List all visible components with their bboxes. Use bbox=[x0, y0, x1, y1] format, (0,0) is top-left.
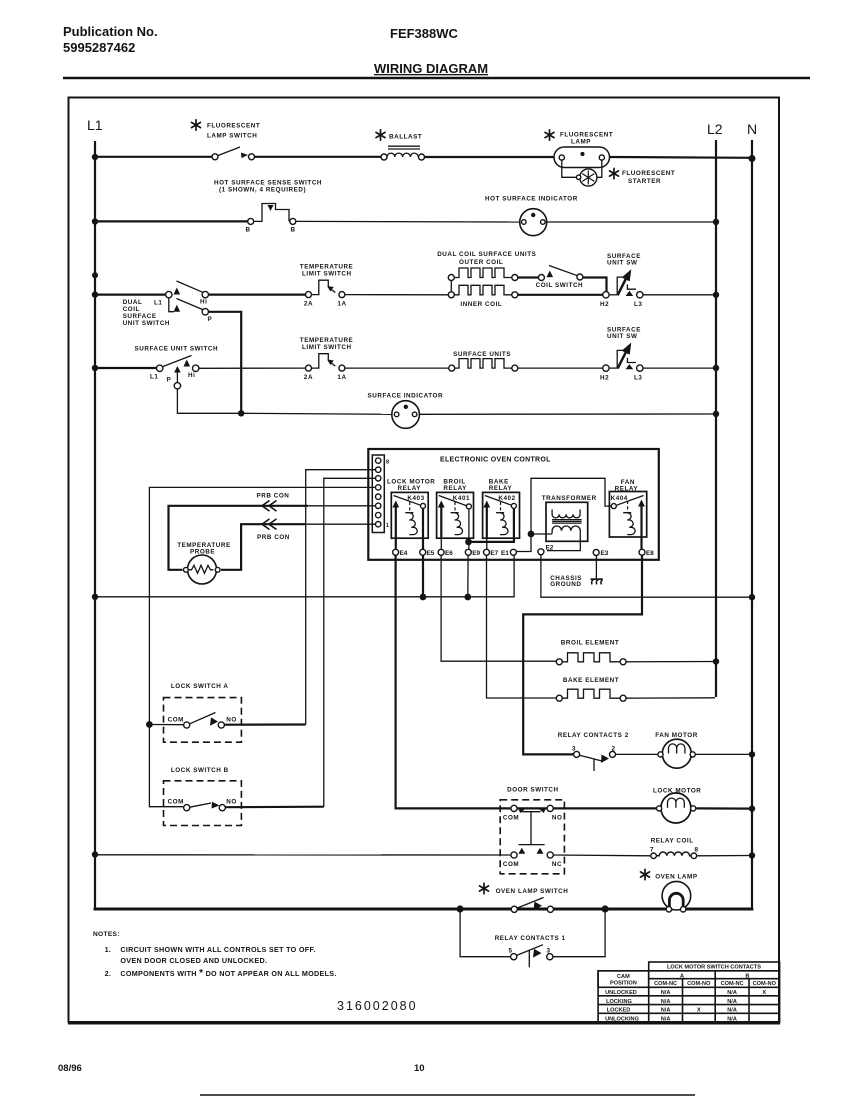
svg-text:5995287462: 5995287462 bbox=[63, 40, 135, 55]
junction L1 relay coil row bbox=[92, 851, 98, 857]
svg-text:1A: 1A bbox=[337, 374, 346, 381]
svg-text:E1: E1 bbox=[501, 550, 509, 557]
svg-text:LOCKING: LOCKING bbox=[606, 999, 632, 1005]
svg-text:SURFACE: SURFACE bbox=[123, 313, 157, 320]
svg-text:FEF388WC: FEF388WC bbox=[390, 26, 459, 41]
svg-text:1.: 1. bbox=[105, 945, 112, 954]
wire door switch NC to relay coil bbox=[553, 854, 650, 857]
svg-text:UNIT SW: UNIT SW bbox=[607, 260, 637, 267]
wire lamp to N bbox=[610, 156, 753, 159]
junction oven lamp row right branch bbox=[602, 905, 609, 912]
svg-text:FLUORESCENT: FLUORESCENT bbox=[560, 132, 613, 139]
wire L3 to L2 bbox=[643, 294, 716, 296]
header publication no bbox=[63, 24, 158, 55]
bake element bbox=[556, 677, 626, 701]
svg-text:3: 3 bbox=[547, 947, 551, 954]
relay terminal E6 bbox=[438, 538, 453, 557]
svg-text:X: X bbox=[762, 990, 766, 996]
junction L2 row2 bbox=[713, 219, 719, 225]
svg-text:N/A: N/A bbox=[661, 999, 671, 1005]
wire oven lamp row bbox=[95, 908, 752, 909]
svg-text:X: X bbox=[697, 1008, 701, 1014]
svg-text:OUTER COIL: OUTER COIL bbox=[459, 259, 503, 266]
svg-text:LAMP SWITCH: LAMP SWITCH bbox=[207, 133, 257, 140]
svg-text:E9: E9 bbox=[472, 550, 480, 557]
EOC connector strip bbox=[372, 455, 389, 533]
svg-text:8: 8 bbox=[386, 460, 389, 466]
PRB CON arrow upper bbox=[257, 493, 290, 512]
wire lock motor to N bbox=[696, 807, 752, 809]
lock switch A bbox=[153, 683, 242, 742]
junction L1 row1 bbox=[92, 154, 98, 160]
svg-text:2A: 2A bbox=[304, 301, 313, 308]
footer rule bbox=[200, 1094, 695, 1096]
wire door switch NO to lock motor bbox=[553, 807, 657, 809]
wire broil element to L2 bbox=[626, 661, 716, 663]
svg-text:CAM: CAM bbox=[617, 974, 630, 980]
wire L2 rail bbox=[715, 140, 717, 697]
wire row3 L1 to switch bbox=[95, 294, 166, 296]
fluorescent lamp switch bbox=[192, 120, 261, 160]
svg-text:E4: E4 bbox=[400, 550, 408, 557]
lock motor relay K403 bbox=[387, 479, 435, 539]
wire L1 net row to E1 bbox=[95, 555, 514, 597]
svg-text:N/A: N/A bbox=[727, 990, 737, 996]
svg-text:B: B bbox=[290, 227, 295, 234]
svg-text:TRANSFORMER: TRANSFORMER bbox=[542, 495, 597, 502]
junction L1 row3 bbox=[92, 291, 98, 297]
svg-text:1: 1 bbox=[386, 523, 389, 529]
junction transformer primary feed bbox=[528, 531, 535, 538]
svg-text:RELAY CONTACTS 1: RELAY CONTACTS 1 bbox=[495, 935, 566, 942]
junction indicator row bbox=[238, 410, 244, 416]
wire inner coil to H2 bbox=[518, 294, 603, 296]
svg-text:HOT SURFACE INDICATOR: HOT SURFACE INDICATOR bbox=[485, 196, 578, 203]
svg-text:N: N bbox=[747, 121, 757, 137]
svg-text:RELAY COIL: RELAY COIL bbox=[651, 837, 694, 844]
oven lamp bbox=[641, 869, 698, 912]
wire Hi to temp limit switch row4 bbox=[199, 367, 305, 369]
svg-text:SURFACE INDICATOR: SURFACE INDICATOR bbox=[368, 392, 444, 399]
svg-text:COM-NO: COM-NO bbox=[753, 981, 777, 987]
junction lock switch A common bbox=[146, 721, 153, 728]
surface unit SW row3 bbox=[600, 253, 643, 308]
svg-text:TEMPERATURE: TEMPERATURE bbox=[300, 337, 354, 344]
wire bake common to E9 junction bbox=[469, 508, 514, 542]
wire row4 L1 to switch bbox=[95, 367, 157, 369]
relay terminal E2 bbox=[538, 545, 554, 555]
svg-text:UNIT SW: UNIT SW bbox=[607, 333, 637, 340]
relay terminal E9 shared broil/bake bbox=[465, 509, 480, 557]
wire lock switch B NO to pin6 rail bbox=[225, 806, 323, 809]
wire row1 L1 to lamp switch bbox=[95, 156, 212, 158]
dual coil surface units bbox=[437, 251, 536, 308]
svg-text:LOCK MOTOR SWITCH CONTACTS: LOCK MOTOR SWITCH CONTACTS bbox=[667, 965, 761, 971]
junction N fan motor row bbox=[749, 751, 755, 757]
wire relay contacts 2 to fan motor bbox=[616, 753, 659, 755]
junction N lock motor row bbox=[749, 805, 755, 811]
svg-text:FLUORESCENT: FLUORESCENT bbox=[207, 123, 260, 130]
relay terminal E1 bbox=[501, 549, 516, 557]
svg-text:CIRCUIT SHOWN WITH ALL CONTROL: CIRCUIT SHOWN WITH ALL CONTROLS SET TO O… bbox=[120, 945, 315, 954]
svg-text:N/A: N/A bbox=[727, 999, 737, 1005]
wire P branch row4 down to indicator row bbox=[177, 389, 241, 413]
svg-text:N/A: N/A bbox=[661, 1016, 671, 1022]
svg-text:NO: NO bbox=[226, 716, 237, 723]
door switch bbox=[500, 786, 564, 874]
junction E9 on L1 net bbox=[464, 594, 471, 601]
svg-text:STARTER: STARTER bbox=[628, 178, 661, 185]
temperature limit switch row3 bbox=[300, 264, 354, 308]
svg-text:E8: E8 bbox=[646, 550, 654, 557]
svg-text:WIRING DIAGRAM: WIRING DIAGRAM bbox=[374, 61, 488, 76]
svg-text:COM-NC: COM-NC bbox=[721, 981, 744, 987]
svg-text:L3: L3 bbox=[634, 301, 642, 308]
PRB CON arrow lower bbox=[257, 519, 290, 541]
svg-text:LOCK SWITCH A: LOCK SWITCH A bbox=[171, 683, 229, 690]
wire E2 to N neutral row bbox=[541, 555, 752, 597]
junction oven lamp row left branch bbox=[457, 905, 464, 912]
wire 1A to surface units bbox=[345, 367, 449, 369]
wire lamp switch to ballast bbox=[255, 156, 382, 158]
svg-text:LOCK SWITCH B: LOCK SWITCH B bbox=[171, 767, 229, 774]
svg-text:(1 SHOWN, 4 REQUIRED): (1 SHOWN, 4 REQUIRED) bbox=[219, 187, 306, 194]
EOC box bbox=[368, 449, 659, 560]
svg-text:E5: E5 bbox=[427, 550, 435, 557]
svg-text:RELAY: RELAY bbox=[398, 485, 422, 492]
hot surface sense switch bbox=[214, 180, 322, 234]
svg-text:COIL SWITCH: COIL SWITCH bbox=[536, 282, 584, 289]
svg-text:L2: L2 bbox=[707, 121, 723, 137]
svg-text:L1: L1 bbox=[150, 374, 158, 381]
svg-text:H2: H2 bbox=[600, 374, 609, 381]
svg-text:L3: L3 bbox=[634, 374, 642, 381]
wire pin5 to lock switches common rail bbox=[149, 487, 375, 806]
junction L1 L1-net row bbox=[92, 594, 98, 600]
svg-text:P: P bbox=[167, 377, 172, 384]
wire row2 L1 to sense switch bbox=[95, 220, 248, 222]
wire E1 loop to transformer and fan relay bbox=[516, 478, 611, 551]
broil relay K401 bbox=[437, 479, 474, 539]
svg-text:NO: NO bbox=[552, 815, 563, 822]
wire N rail bbox=[751, 140, 753, 909]
junction L1 row2 bbox=[92, 218, 98, 224]
wire pin6 to lock switch B NO bbox=[324, 478, 376, 806]
hot surface indicator bbox=[485, 196, 578, 236]
svg-text:INNER COIL: INNER COIL bbox=[460, 301, 502, 308]
svg-text:2A: 2A bbox=[304, 374, 313, 381]
relay terminal E5 bbox=[420, 508, 435, 557]
svg-text:A: A bbox=[680, 973, 684, 979]
wire bake element to L2 bbox=[626, 697, 715, 699]
wire transformer secondary to E2 bbox=[547, 534, 580, 551]
svg-text:NOTES:: NOTES: bbox=[93, 931, 120, 938]
relay terminal E3 bbox=[593, 550, 609, 558]
wire indicator row to surface indicator bbox=[241, 413, 392, 414]
svg-text:BAKE ELEMENT: BAKE ELEMENT bbox=[563, 677, 619, 684]
wire E8 down-left-down to relay contacts 2 bbox=[523, 555, 642, 754]
svg-text:8: 8 bbox=[695, 847, 699, 854]
svg-text:BROIL ELEMENT: BROIL ELEMENT bbox=[561, 640, 619, 647]
svg-text:N/A: N/A bbox=[661, 990, 671, 996]
svg-text:SURFACE UNIT SWITCH: SURFACE UNIT SWITCH bbox=[135, 345, 219, 352]
svg-text:L1: L1 bbox=[87, 117, 103, 133]
svg-text:H2: H2 bbox=[600, 301, 609, 308]
junction N neutral row bbox=[749, 594, 755, 600]
lock motor bbox=[653, 788, 701, 824]
svg-text:RELAY CONTACTS 2: RELAY CONTACTS 2 bbox=[558, 732, 629, 739]
junction L1 upper mark bbox=[92, 272, 98, 278]
wire L3 row4 to L2 bbox=[643, 367, 716, 369]
svg-text:LIMIT SWITCH: LIMIT SWITCH bbox=[302, 271, 352, 278]
junction L2 broil row bbox=[713, 658, 719, 664]
wire L1 to door switch lower COM bbox=[95, 854, 511, 856]
svg-text:2.: 2. bbox=[105, 969, 112, 978]
svg-text:316002080: 316002080 bbox=[337, 999, 418, 1013]
header rule bbox=[63, 77, 810, 79]
surface units element bbox=[449, 351, 518, 371]
svg-text:Hi: Hi bbox=[200, 299, 207, 306]
svg-text:OVEN LAMP SWITCH: OVEN LAMP SWITCH bbox=[496, 888, 569, 895]
svg-text:COM: COM bbox=[503, 861, 519, 868]
wire E6 down to broil element bbox=[441, 555, 556, 661]
wire junction to transformer primary bbox=[531, 533, 552, 535]
bake relay K402 bbox=[483, 479, 520, 539]
svg-text:08/96: 08/96 bbox=[58, 1063, 82, 1074]
svg-text:NC: NC bbox=[552, 861, 562, 868]
svg-text:GROUND: GROUND bbox=[550, 581, 581, 588]
wire E4 down to door switch COM bbox=[396, 555, 511, 808]
wire surface units to H2 row4 bbox=[518, 367, 603, 369]
svg-text:BALLAST: BALLAST bbox=[389, 134, 422, 141]
svg-text:TEMPERATURE: TEMPERATURE bbox=[300, 264, 354, 271]
lock switch B bbox=[164, 767, 242, 826]
surface indicator bbox=[368, 392, 444, 428]
junction L2 row5 bbox=[713, 411, 719, 417]
wire P branch down to indicator row bbox=[209, 312, 242, 414]
svg-text:N/A: N/A bbox=[727, 1008, 737, 1014]
svg-text:ELECTRONIC OVEN CONTROL: ELECTRONIC OVEN CONTROL bbox=[440, 457, 551, 464]
ballast L1 bbox=[376, 130, 425, 160]
relay contacts 1 bbox=[460, 909, 605, 967]
svg-text:HOT SURFACE SENSE SWITCH: HOT SURFACE SENSE SWITCH bbox=[214, 180, 322, 187]
wire pin1 PRB CON to probe right bbox=[306, 523, 375, 525]
svg-text:COMPONENTS WITH * DO NOT APPEA: COMPONENTS WITH * DO NOT APPEAR ON ALL M… bbox=[120, 968, 336, 979]
wire pin3 PRB CON to probe left bbox=[308, 505, 375, 507]
svg-text:5: 5 bbox=[509, 947, 513, 954]
wire indicator to L2 bbox=[547, 221, 716, 223]
transformer bbox=[542, 495, 597, 541]
svg-text:N/A: N/A bbox=[661, 1008, 671, 1014]
wire fan motor to N bbox=[695, 753, 752, 755]
wire 1A to dual coils bbox=[345, 294, 448, 296]
relay contacts 2 bbox=[558, 732, 629, 771]
svg-text:E2: E2 bbox=[546, 545, 554, 552]
relay coil bbox=[650, 837, 699, 858]
svg-text:POSITION: POSITION bbox=[610, 980, 637, 986]
wire relay coil to N bbox=[697, 855, 752, 857]
svg-text:FLUORESCENT: FLUORESCENT bbox=[622, 170, 675, 177]
fluorescent lamp bbox=[545, 130, 613, 168]
svg-text:B: B bbox=[245, 227, 250, 234]
chassis ground bbox=[550, 556, 603, 589]
svg-text:UNLOCKING: UNLOCKING bbox=[605, 1016, 639, 1022]
relay terminal E4 bbox=[393, 538, 408, 557]
wire ballast to fluorescent lamp bbox=[425, 156, 555, 158]
surface unit SW row4 bbox=[600, 327, 643, 382]
svg-text:UNIT SWITCH: UNIT SWITCH bbox=[123, 320, 170, 327]
svg-text:RELAY: RELAY bbox=[443, 485, 467, 492]
svg-text:COM: COM bbox=[168, 799, 184, 806]
svg-text:Publication No.: Publication No. bbox=[63, 24, 158, 39]
svg-text:DOOR SWITCH: DOOR SWITCH bbox=[507, 786, 559, 793]
svg-text:E3: E3 bbox=[601, 550, 609, 557]
svg-text:L1: L1 bbox=[154, 300, 162, 307]
svg-text:P: P bbox=[208, 316, 213, 323]
wire pin7 to lock switch A NO bbox=[306, 470, 376, 725]
svg-text:E6: E6 bbox=[445, 550, 453, 557]
junction L2 row3 bbox=[713, 292, 719, 298]
svg-text:B: B bbox=[745, 973, 749, 979]
svg-text:COIL: COIL bbox=[123, 306, 140, 313]
wire L1 rail bbox=[94, 141, 96, 908]
svg-text:E7: E7 bbox=[490, 550, 498, 557]
svg-text:LAMP: LAMP bbox=[571, 139, 591, 146]
temperature probe bbox=[177, 542, 231, 584]
relay terminal E7 bbox=[484, 538, 499, 557]
wire E7 down to bake element bbox=[487, 555, 557, 698]
svg-text:COM-NC: COM-NC bbox=[654, 981, 677, 987]
svg-text:SURFACE UNITS: SURFACE UNITS bbox=[453, 351, 511, 358]
junction E5 on L1 net bbox=[420, 594, 427, 601]
svg-text:UNLOCKED: UNLOCKED bbox=[605, 990, 637, 996]
svg-text:OVEN DOOR CLOSED AND UNLOCKED.: OVEN DOOR CLOSED AND UNLOCKED. bbox=[120, 956, 267, 965]
svg-text:COM: COM bbox=[168, 716, 184, 723]
notes bbox=[93, 931, 337, 979]
wire Hi to temp limit switch bbox=[209, 294, 306, 296]
svg-text:NO: NO bbox=[226, 799, 237, 806]
wire lock switch A NO to pin7 rail bbox=[224, 723, 305, 725]
svg-text:10: 10 bbox=[414, 1063, 425, 1074]
dual coil surface unit switch bbox=[123, 281, 213, 327]
svg-text:DUAL: DUAL bbox=[123, 299, 143, 306]
broil element bbox=[556, 640, 626, 665]
oven lamp switch bbox=[480, 883, 569, 912]
fan motor bbox=[655, 732, 698, 768]
fluorescent starter bbox=[562, 160, 675, 186]
svg-text:PRB CON: PRB CON bbox=[257, 493, 290, 500]
svg-text:DUAL COIL SURFACE UNITS: DUAL COIL SURFACE UNITS bbox=[437, 251, 536, 258]
temperature limit switch row4 bbox=[300, 337, 354, 381]
svg-text:LOCKED: LOCKED bbox=[607, 1008, 631, 1014]
surface unit switch bbox=[135, 345, 219, 389]
svg-text:COM-NO: COM-NO bbox=[687, 981, 711, 987]
wire surface indicator to L2 bbox=[419, 413, 716, 415]
coil switch bbox=[518, 266, 607, 292]
relay terminal E8 bbox=[639, 537, 654, 558]
junction L1 row4 bbox=[92, 365, 98, 371]
svg-text:K404: K404 bbox=[611, 495, 628, 502]
wire E9 down to L1 net bbox=[467, 555, 469, 597]
outer border frame bbox=[69, 98, 780, 1023]
svg-text:1A: 1A bbox=[337, 301, 346, 308]
wire E5 down to L1 net bbox=[422, 555, 424, 597]
svg-text:PRB CON: PRB CON bbox=[257, 534, 290, 541]
svg-text:FAN MOTOR: FAN MOTOR bbox=[655, 732, 698, 739]
junction L2 row4 bbox=[713, 365, 719, 371]
svg-text:COM: COM bbox=[503, 815, 519, 822]
svg-text:N/A: N/A bbox=[727, 1016, 737, 1022]
svg-text:RELAY: RELAY bbox=[489, 485, 513, 492]
svg-text:Hi: Hi bbox=[188, 372, 195, 379]
wire sense switch to indicator bbox=[296, 220, 520, 223]
svg-text:OVEN LAMP: OVEN LAMP bbox=[655, 873, 697, 880]
junction N row1 bbox=[749, 155, 756, 162]
junction N relay coil row bbox=[749, 852, 755, 858]
svg-text:LIMIT SWITCH: LIMIT SWITCH bbox=[302, 344, 352, 351]
fan relay K404 bbox=[609, 479, 646, 537]
